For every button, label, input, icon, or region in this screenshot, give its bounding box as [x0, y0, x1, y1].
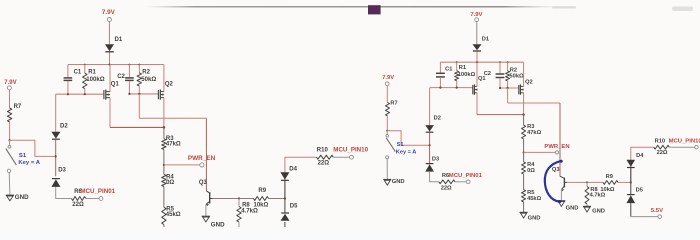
svg-text:Q1: Q1: [111, 81, 120, 87]
wire: C2 right top lead: [499, 62, 501, 73]
wire: R3 to PWR_EN junction: [163, 149, 165, 174]
wire: rail right end down to Q2 drain: [163, 65, 165, 92]
wire: right cross horizontal: [508, 102, 560, 104]
label R6 value 22: [72, 202, 84, 208]
junction dots on left rail: [84, 64, 140, 66]
wire: R10 to terminal: [333, 156, 349, 158]
transistor Q2 (MOSFET): [158, 90, 164, 100]
svg-text:50kΩ: 50kΩ: [141, 76, 156, 83]
svg-text:22Ω: 22Ω: [72, 202, 84, 208]
wire: PWR_EN stub: [164, 164, 200, 166]
wire: C2 bottom lead: [128, 81, 130, 94]
resistor R1 right: [455, 71, 459, 81]
label R8 value 4.7k: [241, 208, 258, 214]
svg-text:100kΩ: 100kΩ: [458, 72, 476, 78]
ground below S1: [6, 195, 14, 201]
svg-text:Q3: Q3: [552, 167, 560, 173]
svg-text:22Ω: 22Ω: [441, 186, 452, 192]
wire: D2 to S1 junction: [55, 140, 57, 176]
svg-text:0Ω: 0Ω: [166, 180, 174, 186]
diode D5: [281, 213, 290, 221]
diode D3: [51, 179, 60, 187]
junction dots node A: [67, 93, 86, 95]
label C2: [117, 74, 125, 80]
label D1: [115, 37, 123, 43]
resistor R8 with lead: [237, 199, 241, 228]
terminal circle 7.9V left top: [107, 18, 111, 22]
wire: faint line tail: [552, 6, 576, 8]
resistor R2 right: [506, 71, 510, 81]
label GND below R8 right: [592, 209, 605, 215]
label C2 right: [484, 71, 491, 77]
diode D3 right: [425, 164, 434, 172]
wire: R1 right top lead: [456, 62, 458, 70]
wire: R6 right to terminal: [455, 181, 466, 183]
diode D4 right: [627, 160, 636, 168]
label R1 right: [459, 65, 466, 71]
wire: node B gate line: [129, 93, 158, 95]
node 7.9V (left top supply label): [102, 9, 116, 16]
label R10: [317, 147, 329, 153]
terminal circle MCU_PIN10: [350, 155, 354, 159]
junction dot right key-diode: [429, 144, 431, 146]
label net MCU_PIN10: [333, 146, 368, 153]
capacitor C1 right: [436, 73, 445, 77]
label R6 right: [442, 173, 449, 179]
capacitor C1: [64, 78, 73, 81]
label GND right chain: [528, 215, 541, 221]
resistor R3: [162, 139, 166, 150]
terminal circle 5.5V: [658, 215, 662, 219]
label D4 right: [636, 153, 644, 159]
label Q3 right: [552, 167, 560, 173]
wire: right Q3 base column: [559, 103, 561, 176]
resistor R10: [317, 155, 334, 159]
svg-text:100kΩ: 100kΩ: [86, 76, 105, 83]
label 5.5V: [651, 208, 663, 214]
wire: right top rail: [440, 61, 523, 63]
junction dot right S1: [386, 130, 388, 132]
wire: right key staircase: [387, 131, 429, 146]
label S1: [19, 153, 27, 159]
svg-text:GND: GND: [392, 179, 405, 185]
label Q3: [199, 180, 208, 186]
switch S1: [6, 140, 17, 172]
transistor Q3 (BJT): [206, 191, 213, 206]
label D3 right: [432, 157, 439, 163]
transistor Q2 right (MOSFET): [519, 84, 524, 94]
wire: R2 top lead: [138, 65, 140, 73]
wire: D1 to rail: [109, 52, 111, 64]
svg-text:Q2: Q2: [525, 79, 533, 85]
svg-text:D2: D2: [60, 124, 68, 130]
svg-text:S1: S1: [397, 142, 404, 148]
wire: R4-R5 right: [523, 174, 525, 190]
svg-text:GND: GND: [566, 205, 579, 211]
label net MCU_PIN01 right: [449, 173, 483, 179]
label GND below S1: [15, 194, 29, 201]
label R3 right: [527, 124, 534, 130]
wire: C1 bottom lead: [67, 81, 69, 94]
svg-text:50kΩ: 50kΩ: [509, 73, 524, 79]
resistor R6 right: [439, 180, 455, 184]
svg-text:D4: D4: [289, 166, 297, 172]
svg-text:0Ω: 0Ω: [527, 168, 535, 174]
node 7.9V (left key supply): [4, 80, 16, 86]
label R10 right: [655, 138, 665, 144]
label R6 right value: [441, 186, 452, 192]
svg-text:5.5V: 5.5V: [651, 208, 663, 214]
wire: 7.9V to R7: [9, 90, 11, 108]
terminal circle MCU_PIN01 left: [99, 197, 103, 201]
label R9 value 10k: [254, 203, 269, 209]
label R3: [166, 136, 174, 142]
svg-text:C2: C2: [117, 74, 125, 80]
svg-text:4.7kΩ: 4.7kΩ: [241, 208, 258, 214]
junction dot R8 top: [238, 197, 240, 199]
resistor R4 right: [522, 162, 526, 174]
junction dot at S1: [9, 139, 11, 141]
ground below S1 right: [383, 180, 391, 186]
junction dot key-diode: [55, 155, 57, 157]
label R7: [14, 104, 22, 110]
svg-text:D5: D5: [290, 204, 298, 210]
capacitor C2: [125, 78, 134, 81]
label S1 right key: [396, 149, 416, 155]
wire: R10 right to terminal: [669, 146, 694, 148]
wire: D4 right to junction: [630, 168, 632, 182]
wire: Q3 base column down: [205, 118, 207, 191]
junction dot diode column: [284, 197, 286, 199]
svg-text:C1: C1: [74, 69, 82, 75]
label R9 right value: [600, 187, 614, 193]
wire: R6 to terminal: [86, 198, 99, 200]
label R2 value 50k: [141, 76, 156, 83]
svg-text:4.7kΩ: 4.7kΩ: [590, 193, 606, 199]
wire: Q1 source to Q2 source junction: [110, 126, 164, 128]
junction dot right PWR_EN tap: [523, 151, 525, 153]
wire: C2 top lead: [128, 65, 130, 78]
resistor R4: [162, 175, 166, 187]
wire: S1 right to ground: [386, 159, 388, 180]
svg-text:Key = A: Key = A: [396, 149, 416, 155]
svg-text:PWR_EN: PWR_EN: [188, 155, 216, 162]
svg-text:GND: GND: [211, 222, 225, 228]
label GND below S1 right: [392, 179, 405, 185]
terminal circle MCU_PIN01 right: [466, 180, 470, 184]
wire: Q2 right source down: [523, 93, 525, 115]
svg-text:GND: GND: [528, 215, 541, 221]
wire: C1 top lead: [67, 65, 69, 78]
label D1 right: [482, 37, 489, 43]
wire: right rail end down to Q2 drain: [523, 62, 525, 86]
svg-text:R7: R7: [14, 104, 22, 110]
diode D5 right: [627, 195, 636, 204]
diode D1: [105, 44, 114, 52]
svg-text:MCU_PIN01: MCU_PIN01: [80, 188, 115, 195]
label Q2 right: [525, 79, 533, 85]
wire: right PWR_EN stub: [524, 151, 556, 153]
transistor Q1 right (MOSFET): [473, 84, 478, 94]
label R4 value 0: [166, 180, 174, 186]
wire: Q1-Q2 right source junction line: [477, 114, 524, 116]
label R4 right: [527, 162, 535, 168]
terminal circle right PWR_EN: [555, 151, 558, 154]
wire: Q3 right collector line: [567, 181, 631, 183]
label C1: [74, 69, 82, 75]
label GND below Q3 right: [566, 205, 579, 211]
junction dot right sources: [522, 113, 524, 115]
resistor R1: [83, 73, 87, 88]
wire: R5 to bottom edge: [163, 225, 165, 228]
junction dot right R8 top: [586, 181, 588, 183]
label R6: [74, 189, 82, 195]
wire: Q3 collector to diode column: [213, 198, 285, 200]
label D5 right: [636, 187, 643, 193]
svg-text:GND: GND: [15, 194, 29, 201]
label PWR_EN net: [188, 155, 216, 162]
wire: 5.5V output line: [631, 216, 658, 218]
svg-text:PWR_EN: PWR_EN: [544, 144, 569, 150]
label R1 right value: [458, 72, 476, 78]
svg-text:7.9V: 7.9V: [102, 9, 116, 16]
svg-text:MCU_PIN01: MCU_PIN01: [449, 173, 483, 179]
label R8: [242, 203, 250, 209]
node: faint watermark top right: [672, 7, 693, 12]
wire: R1 top lead: [84, 65, 86, 74]
resistor R6: [72, 197, 86, 201]
label GND below Q3: [211, 222, 225, 229]
wire: D5 right leads: [630, 182, 632, 216]
label D5: [290, 204, 298, 210]
wire: 7.9V to D1 right: [476, 22, 478, 45]
svg-text:R9: R9: [606, 174, 613, 180]
resistor R3 right: [522, 125, 526, 139]
transistor Q3 right (BJT): [560, 176, 567, 191]
label Q1 right: [478, 76, 486, 82]
wire: Q3 right emitter down: [560, 190, 562, 201]
wire: right node B down: [507, 88, 509, 103]
wire: right D2 to junction: [429, 133, 431, 163]
junction dots right node A: [439, 87, 458, 89]
label R4 right value: [527, 168, 535, 174]
wire: R4 to R5: [163, 187, 165, 208]
transistor Q1 (MOSFET): [104, 90, 110, 100]
label D2: [60, 124, 68, 130]
label S1 key: [18, 160, 40, 166]
svg-text:MCU_PIN10: MCU_PIN10: [333, 146, 368, 153]
ground below R8 right: [583, 206, 591, 212]
svg-text:45kΩ: 45kΩ: [166, 212, 181, 218]
label R5 right: [527, 190, 534, 196]
svg-text:Q2: Q2: [165, 82, 174, 88]
svg-text:47kΩ: 47kΩ: [166, 142, 181, 148]
capacitor C2 right: [496, 74, 505, 78]
svg-text:R1: R1: [459, 65, 466, 71]
resistor R5: [162, 207, 166, 224]
label R5: [166, 207, 174, 213]
label R2 right: [510, 67, 517, 73]
label Q2: [165, 82, 174, 88]
wire: node B down: [138, 94, 140, 118]
wire: node A corner down to D2: [55, 94, 57, 132]
terminal circle MCU_PIN right: [695, 146, 698, 149]
wire: diode column top corner: [285, 157, 317, 198]
resistor R8 right with leads: [585, 182, 589, 206]
label R3 right value: [527, 130, 541, 136]
ground below Q3: [202, 216, 210, 222]
svg-text:R10: R10: [317, 147, 329, 153]
wire: R1 bottom lead: [84, 89, 86, 95]
svg-text:D5: D5: [636, 187, 643, 193]
svg-text:C1: C1: [445, 66, 452, 72]
wire: cross horizontal to Q3 base column: [139, 117, 206, 119]
label S1 right: [397, 142, 404, 148]
svg-text:C2: C2: [484, 71, 491, 77]
wire: right chain to R3: [523, 115, 525, 126]
wire: R7 to switch junction: [9, 122, 11, 140]
wire: right diode column top corner: [631, 147, 654, 182]
svg-text:7.9V: 7.9V: [470, 12, 482, 18]
junction dots right rail: [456, 61, 509, 63]
junction dot right diode column: [630, 181, 632, 183]
junction dot PWR_EN tap: [163, 164, 165, 166]
label R2 right value: [509, 73, 524, 79]
diode D2 right: [425, 125, 434, 132]
junction dots right node B: [499, 87, 509, 89]
wire: left top rail: [68, 64, 164, 66]
svg-text:7.9V: 7.9V: [4, 80, 16, 86]
resistor R7 right: [386, 103, 390, 116]
svg-text:D3: D3: [432, 157, 439, 163]
label R5 right value: [527, 196, 541, 202]
wire: chain junction to R3: [163, 127, 165, 138]
label R10 right value: [657, 150, 668, 156]
label R1: [88, 70, 96, 76]
wire: D4 to junction: [284, 181, 286, 199]
label R4: [166, 174, 174, 180]
svg-text:D1: D1: [482, 37, 489, 43]
wire: right 7.9V to R7: [386, 86, 388, 103]
label R2: [142, 70, 150, 76]
svg-text:22Ω: 22Ω: [657, 150, 668, 156]
ground below right chain: [520, 212, 528, 218]
terminal circle 7.9V key left: [7, 86, 11, 90]
terminal circle 7.9V key right: [385, 82, 389, 86]
label D3: [58, 168, 66, 174]
resistor R2: [137, 73, 141, 86]
ground below Q3 right: [557, 201, 565, 207]
wire: R2 bottom lead: [138, 86, 140, 94]
wire: Q2 source down to junction: [163, 98, 165, 128]
wire: right node B gate line: [500, 87, 519, 89]
svg-text:Q3: Q3: [199, 180, 208, 186]
svg-text:7.9V: 7.9V: [382, 75, 394, 81]
wire: key node staircase to diodes: [10, 140, 56, 156]
wire: Q3 emitter down: [205, 204, 207, 216]
wire: R7 right to junction: [386, 116, 388, 131]
label R8 right: [590, 187, 597, 193]
switch S1 right: [386, 131, 396, 159]
resistor R9: [254, 197, 269, 201]
node 7.9V (right top supply label): [470, 12, 482, 18]
label C1 right: [445, 66, 452, 72]
resistor R10 right: [654, 145, 670, 149]
annotation: blue ellipse highlight: [545, 160, 563, 204]
label Q1: [111, 81, 120, 87]
svg-text:GND: GND: [592, 209, 605, 215]
svg-text:D2: D2: [434, 115, 441, 121]
wire: S1 to ground: [8, 173, 11, 195]
wire: right node A gate line: [430, 87, 473, 89]
label right PWR_EN: [544, 144, 569, 150]
wire: R5 right to ground: [523, 202, 525, 212]
node 7.9V (right key supply): [382, 75, 394, 81]
svg-text:MCU_PIN10: MCU_PIN10: [669, 138, 700, 144]
wire: Q1 drain to rail: [109, 65, 111, 92]
label net MCU_PIN01 left: [80, 188, 115, 195]
wire: 7.9V to D1: [108, 22, 110, 45]
terminal circle PWR_EN: [200, 163, 204, 167]
label D4: [289, 166, 297, 172]
wire: R1 right bottom lead: [456, 81, 458, 88]
wire: C1 right bottom lead: [439, 77, 441, 87]
wire: Q1 right drain to rail: [476, 62, 478, 86]
svg-text:D1: D1: [115, 37, 123, 43]
label R7 right: [390, 101, 397, 107]
wire: right node A corner down: [429, 88, 431, 125]
diode D2: [51, 132, 60, 140]
svg-text:D3: D3: [58, 168, 66, 174]
svg-text:45kΩ: 45kΩ: [527, 196, 541, 202]
svg-text:47kΩ: 47kΩ: [527, 130, 541, 136]
wire: node A gate line: [56, 93, 104, 95]
label R5 value 45k: [166, 212, 181, 218]
label D2 right: [434, 115, 441, 121]
resistor R9 right: [603, 181, 618, 185]
resistor R5 right: [522, 190, 526, 202]
junction dots node B: [128, 93, 140, 95]
label R3 value 47k: [166, 142, 181, 148]
resistor R7: [7, 108, 11, 122]
junction dot sources: [163, 126, 166, 129]
wire: C2 right bottom lead: [499, 78, 501, 88]
wire: C1 right top lead: [439, 62, 441, 72]
wire: D5 leads: [284, 199, 286, 228]
svg-text:R9: R9: [258, 188, 266, 194]
label net MCU_PIN right: [669, 138, 700, 144]
wire: top horizontal divider line: [145, 6, 552, 8]
svg-text:S1: S1: [19, 153, 27, 159]
wire: R3 right to junction: [523, 139, 525, 162]
wire: Q1 right source down: [476, 93, 478, 115]
wire: right D3 to R6: [430, 172, 439, 182]
wire: D3 to R6: [56, 187, 72, 198]
svg-text:R2: R2: [142, 70, 150, 76]
diode D1 right: [473, 44, 482, 51]
label R1 value 100k: [86, 76, 105, 83]
svg-text:R7: R7: [390, 101, 397, 107]
label R9 right: [606, 174, 613, 180]
svg-text:D4: D4: [636, 153, 644, 159]
wire: R2 right top lead: [507, 62, 509, 71]
svg-text:R10: R10: [655, 138, 665, 144]
label R10 value 22: [318, 161, 330, 167]
node: purple marker square: [368, 5, 381, 14]
diode D4: [280, 172, 289, 180]
wire: R2 right bottom lead: [507, 81, 509, 88]
label R9: [258, 188, 266, 194]
